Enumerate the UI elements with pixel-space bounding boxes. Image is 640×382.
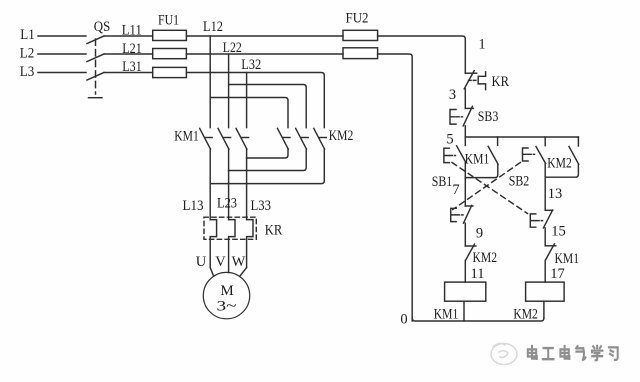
KM1 pole 1 slash [200, 128, 211, 149]
KM2 pole 2 slash [296, 128, 307, 149]
svg-text:SB3: SB3 [478, 109, 499, 125]
SB1-NC tick [545, 209, 553, 211]
coil KM1 [434, 282, 486, 322]
wire SB1 top stub [464, 137, 466, 145]
KM2 aux bottom return [545, 164, 578, 177]
FU2 fuse element top [343, 30, 378, 40]
QS handle bar [89, 97, 103, 99]
wire L12 horizontal feeder to FU2 [186, 19, 343, 36]
svg-text:KM2: KM2 [473, 250, 498, 266]
svg-text:L32: L32 [241, 57, 261, 73]
watermark text 电工电气学习 [529, 347, 619, 361]
KM2 pole 3 tick [320, 137, 327, 139]
wire KM1 pole1 output down [209, 149, 211, 219]
contactor KM1 main contacts [174, 128, 248, 149]
SB2-NC slash [464, 205, 472, 223]
wire L22 vertical drop [228, 54, 230, 128]
wire KM2 coil to neutral [543, 301, 545, 318]
SB1 slash [457, 146, 466, 162]
svg-text:QS: QS [94, 19, 111, 35]
wire L12 vertical drop [209, 36, 211, 128]
wire L32 vertical drop [246, 73, 248, 128]
svg-text:9: 9 [476, 226, 483, 242]
svg-text:0: 0 [400, 312, 407, 328]
wire U lead into motor [210, 268, 213, 277]
KM1 aux bottom return [465, 164, 498, 177]
switch QS [87, 19, 110, 98]
thermal relay contact KR (NC) [464, 71, 509, 90]
svg-text:FU1: FU1 [158, 13, 179, 29]
fuse FU1 [153, 13, 187, 78]
svg-text:17: 17 [550, 266, 565, 282]
wire W lead into motor [240, 268, 247, 277]
svg-text:V: V [215, 254, 226, 270]
KM2-NC slash [466, 244, 475, 260]
KM2-NC tick [465, 245, 476, 247]
svg-text:W: W [232, 254, 246, 270]
wire neutral bus 0 [412, 318, 544, 321]
wire node 13 segment [544, 164, 546, 211]
KM2 aux slash [569, 147, 579, 165]
SB1 dash link [450, 155, 456, 157]
SB1-NC dash link [537, 220, 543, 222]
pushbutton SB1 start-forward (NO) [432, 146, 466, 190]
wire L21 [104, 41, 153, 57]
wire FU2 bottom output to neutral rail [378, 54, 413, 321]
svg-text:KM1: KM1 [555, 251, 580, 267]
svg-text:M: M [220, 283, 233, 299]
SB2 dash link [529, 153, 535, 155]
svg-text:L2: L2 [20, 46, 35, 62]
KM2 pole 1 tick [283, 137, 290, 139]
KR dashed enclosure [204, 217, 256, 239]
contactor KM2 interlock contact (NC) [465, 244, 497, 266]
wire node 7 segment [464, 162, 466, 206]
node L3 [20, 64, 86, 80]
FU1 fuse element pole 2 [153, 49, 187, 59]
mechanical link SB2 to SB2-NC dashed [453, 163, 521, 210]
svg-text:KM1: KM1 [465, 152, 490, 168]
wire L11 [104, 23, 153, 39]
thermal relay KR heater elements [204, 217, 283, 272]
wire L31 [104, 59, 153, 75]
wire node 9 segment [464, 223, 466, 246]
SB3 slash [463, 106, 472, 126]
svg-text:SB2: SB2 [509, 174, 530, 190]
KM1 pole 3 tick [242, 137, 249, 139]
wire KM1 coil to neutral [463, 301, 465, 321]
pushbutton SB2 start-reverse (NO) [509, 137, 546, 190]
wire crossover L22 to KM2 pole 2 [229, 85, 307, 128]
KM1 pole 2 slash [218, 128, 229, 149]
mechanical link SB1 to SB1-NC dashed [452, 163, 528, 214]
wire L33 vertical [246, 158, 248, 220]
wire node 3 segment [464, 89, 466, 109]
KR heater phase U jog [210, 220, 216, 268]
KR contact slash [464, 71, 474, 89]
FU1 fuse element pole 3 [153, 67, 187, 77]
KM2 aux top stub [577, 137, 579, 146]
svg-text:L1: L1 [20, 27, 35, 43]
node L1 [20, 27, 86, 43]
KM1-NC tick [545, 245, 556, 247]
KM1 pole 2 tick [224, 137, 231, 139]
motor M1 [203, 272, 249, 318]
KR actuator dash link [469, 79, 479, 81]
wire L32 horizontal feeder [186, 57, 324, 76]
KM2 pole 3 slash [314, 128, 325, 149]
fuse FU2 [343, 11, 378, 59]
contactor KM1 auxiliary holding contact (NO) [465, 137, 498, 178]
SB1 button cap [444, 148, 450, 162]
svg-text:KM2: KM2 [329, 128, 354, 144]
svg-text:15: 15 [551, 224, 566, 240]
wire FU2 top output to control line 1 [378, 36, 466, 73]
svg-text:KM2: KM2 [513, 307, 538, 323]
QS linkage dashed [95, 39, 97, 94]
svg-text:KM2: KM2 [547, 156, 572, 172]
wire KM1 pole2 output down [228, 149, 230, 170]
SB2 slash [536, 147, 546, 164]
svg-text:L3: L3 [20, 64, 35, 80]
watermark logo [491, 343, 517, 364]
svg-text:11: 11 [471, 266, 485, 282]
wire node 5 segment [464, 126, 466, 137]
wire node 17 segment [544, 261, 546, 283]
KM1 pole 1 tick [206, 137, 213, 139]
wire L3 to QS [38, 72, 86, 74]
contactor KM2 main contacts [278, 128, 354, 149]
QS blade pole 1 [87, 36, 104, 44]
FU2 fuse element bottom [343, 48, 378, 59]
svg-text:FU2: FU2 [346, 11, 369, 27]
KM1 aux slash [488, 146, 498, 164]
pushbutton SB2 break contact in forward path (NC) [451, 205, 473, 223]
wire L23 vertical [228, 171, 230, 220]
QS blade pole 3 [87, 73, 104, 81]
svg-text:L12: L12 [203, 19, 223, 35]
svg-text:7: 7 [452, 182, 459, 198]
pushbutton SB1 break contact in reverse path (NC) [530, 210, 553, 228]
wire KM2 pole1 output swap to phase W [247, 149, 288, 158]
wire L2 to QS [38, 53, 86, 55]
contactor KM2 auxiliary holding contact (NO) [545, 137, 579, 177]
SB2-NC button cap [451, 208, 457, 221]
wire L1 to QS [38, 35, 86, 37]
SB2-NC dash link [457, 214, 463, 216]
svg-text:KM1: KM1 [174, 129, 199, 145]
coil KM2 [513, 282, 564, 322]
SB2 top stub [544, 137, 546, 146]
svg-text:1: 1 [478, 37, 485, 53]
wire KM2 pole3 output swap to phase U [210, 149, 324, 183]
QS blade pole 2 [87, 54, 104, 62]
svg-text:13: 13 [548, 186, 563, 202]
svg-text:L33: L33 [250, 198, 271, 214]
wire L22 horizontal feeder to FU2 [186, 40, 343, 56]
svg-text:5: 5 [446, 132, 453, 148]
pushbutton SB3 stop (NC) [450, 106, 498, 126]
KM1-NC slash [546, 244, 555, 260]
svg-text:KR: KR [492, 74, 510, 90]
svg-text:L13: L13 [183, 198, 204, 214]
SB1-NC button cap [530, 214, 536, 227]
SB1-NC slash [543, 210, 552, 228]
wire crossover L12 to KM2 pole 1 [210, 98, 288, 128]
SB3 dash link [457, 116, 463, 118]
SB3 tick [465, 107, 473, 109]
KM1 aux top stub [497, 137, 499, 145]
KR heater phase V jog [229, 220, 235, 273]
svg-text:KM1: KM1 [434, 307, 459, 323]
SB2 button cap [523, 148, 529, 161]
svg-text:U: U [196, 254, 207, 270]
wire node 11 segment [464, 261, 466, 283]
KM2 pole 1 slash [278, 128, 289, 149]
wire KM2 pole2 output swap to phase V [229, 149, 307, 170]
KR heater phase W jog [247, 220, 253, 268]
wire control bus [465, 136, 578, 138]
wire node 15 segment [544, 228, 546, 246]
SB2-NC tick [465, 205, 473, 207]
KR actuator notch [478, 72, 485, 90]
svg-text:SB1: SB1 [432, 174, 453, 190]
svg-text:KR: KR [265, 223, 283, 239]
wire KM1 pole3 output down [246, 149, 248, 158]
KM2 pole 2 tick [302, 137, 309, 139]
SB3 button cap [450, 110, 456, 125]
node L2 [20, 46, 86, 62]
contactor KM1 interlock contact (NC) [545, 244, 579, 267]
svg-text:3~: 3~ [217, 299, 237, 315]
KM1 pole 3 slash [236, 128, 247, 149]
svg-text:3: 3 [449, 87, 456, 103]
svg-text:L23: L23 [217, 196, 237, 212]
KR contact tick [465, 72, 476, 74]
FU1 fuse element pole 1 [153, 30, 187, 40]
wire crossover L32 to KM2 pole 3 [323, 76, 325, 128]
